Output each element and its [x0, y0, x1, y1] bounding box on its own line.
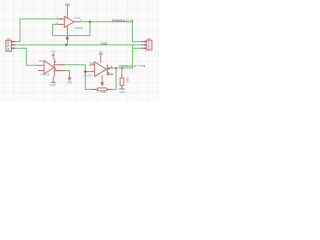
pin OK1 bottom gnd	[52, 77, 54, 79]
optocoupler OK2 led triangle	[95, 62, 107, 77]
pin U1B V-	[66, 26, 68, 37]
wire X1 pin1 to U1B +input	[16, 19, 59, 42]
pin OK2 top vcc	[100, 56, 102, 62]
svg-text:PWM2x0.17 .7 Pk: PWM2x0.17 .7 Pk	[119, 64, 146, 68]
ground bar OK1	[51, 81, 55, 83]
pin X1-2	[11, 44, 16, 46]
pin OK1 cathode (n.c.)	[38, 70, 44, 72]
ground bar R3	[119, 88, 125, 90]
wire U1B V- pin to GND rail	[66, 40, 68, 45]
pin U1B output	[74, 21, 80, 23]
wire U1B feedback loop	[53, 22, 90, 36]
junction GND rail / U1B V-	[65, 44, 68, 47]
dot at OK2 cathode junction	[84, 70, 86, 72]
svg-text:OK1: OK1	[39, 59, 45, 63]
wire OK2 wiper link stub	[101, 78, 103, 81]
svg-text:+5V: +5V	[51, 51, 56, 54]
pin X2-2	[141, 44, 146, 46]
pin mark OK2 e	[108, 72, 109, 74]
pin OK2 collector out	[107, 67, 113, 69]
grid	[0, 0, 158, 101]
pin U1B -input	[59, 23, 65, 25]
svg-text:GND: GND	[67, 80, 72, 84]
sheet background	[0, 0, 320, 132]
pin OK1 emitter	[54, 70, 64, 72]
svg-text:+5V: +5V	[98, 51, 103, 54]
pad marks X2	[144, 42, 145, 49]
wire OK2 vcc stub	[100, 54, 102, 56]
pin X1-3	[11, 47, 16, 49]
pot R2 left lead	[92, 88, 97, 90]
optocoupler OK1 cathode bar	[53, 58, 55, 77]
pin OK2 bottom to wiper	[101, 75, 103, 77]
svg-text:LM358: LM358	[74, 26, 83, 30]
pin X2-1	[141, 41, 146, 43]
pot R2 right lead	[107, 88, 111, 90]
junction pot feedback on PWM wire	[115, 67, 117, 69]
plus sign U1B	[60, 18, 62, 20]
svg-text:3: 3	[7, 47, 9, 51]
op-amp U1B triangle	[64, 16, 74, 27]
wire GND rail	[16, 44, 141, 46]
pin mark OK2 c	[108, 68, 109, 70]
wire OK1 emitter down	[64, 71, 69, 76]
svg-text:3: 3	[148, 47, 150, 51]
resistor R3 body	[121, 74, 123, 78]
junction U1B output	[89, 20, 92, 23]
svg-text:JP1: JP1	[6, 37, 11, 41]
pin OK1 top vcc	[52, 56, 54, 59]
supply bar OK1	[52, 54, 55, 56]
pin mark OK1 c	[55, 61, 56, 63]
svg-text:+5V: +5V	[65, 3, 70, 6]
cross at U1B V- pin end	[66, 37, 68, 39]
wire OK1 collector to OK2 anode and pot	[64, 65, 92, 90]
wire pot right terminal up to output	[111, 68, 116, 89]
optocoupler OK2 cathode bar	[106, 64, 108, 75]
pot R2 body	[97, 88, 107, 91]
resistor R3 bottom lead	[121, 85, 123, 88]
wire OK2 output PWM net	[113, 67, 133, 69]
pin U1B +input	[59, 18, 65, 20]
supply bar OK2 V+	[99, 53, 103, 55]
svg-text:JP2: JP2	[146, 37, 151, 41]
wire R3 top to output	[121, 68, 123, 74]
ground arrow emitter	[68, 76, 70, 80]
wire OK1 vcc stub	[52, 53, 54, 55]
connector X2 box	[146, 40, 152, 50]
pin OK2 emitter (n.c.)	[107, 73, 113, 75]
minus sign U1B	[60, 23, 62, 25]
pin X1-1	[11, 41, 16, 43]
wiper arrowhead onto pot	[101, 83, 104, 85]
svg-text:GND: GND	[50, 83, 56, 87]
wire U1B vcc stub	[66, 5, 68, 8]
pin OK1 collector	[54, 64, 64, 66]
svg-text:SPWM2x0.17 .7k: SPWM2x0.17 .7k	[112, 19, 134, 23]
pad marks X1	[12, 42, 13, 49]
wire X1 pin3 to OK1 anode	[16, 48, 37, 65]
pin OK2 cathode	[85, 71, 94, 73]
pin U1B V+	[66, 8, 68, 17]
connector X1 box	[6, 40, 11, 51]
svg-text:10k: 10k	[100, 90, 105, 94]
svg-text:GND: GND	[101, 41, 109, 45]
svg-text:100k: 100k	[125, 76, 129, 83]
wiper arrow line	[101, 81, 103, 83]
optocoupler OK1 led triangle	[44, 61, 54, 74]
pin mark OK1 e	[55, 68, 56, 70]
svg-text:GND: GND	[119, 90, 125, 94]
svg-text:LTV816: LTV816	[40, 73, 50, 77]
svg-text:LTV816: LTV816	[84, 73, 94, 77]
pin OK1 anode	[37, 64, 44, 66]
wire U1B output SPWM net	[80, 22, 141, 42]
supply bar U1B V+	[65, 4, 69, 6]
pin OK2 anode	[89, 64, 95, 66]
wire OK1 gnd pin stub	[52, 79, 54, 81]
wire PWM net to X2 pin3	[133, 45, 142, 68]
pin X2-3	[141, 47, 146, 49]
junction R3 on PWM wire	[121, 67, 123, 69]
